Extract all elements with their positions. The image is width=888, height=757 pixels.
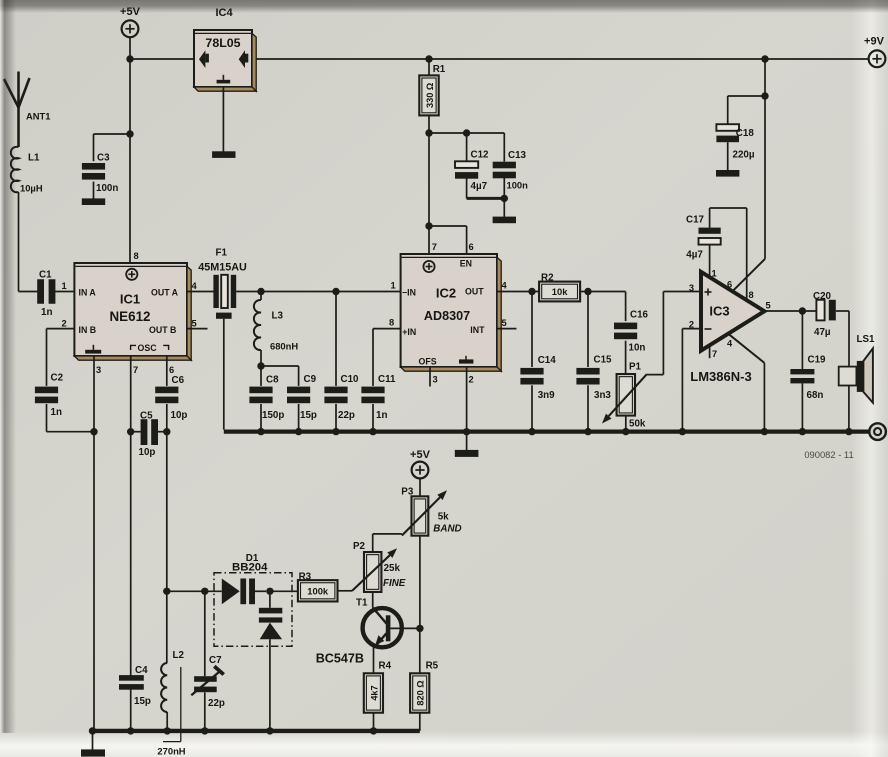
svg-text:BAND: BAND: [433, 524, 461, 535]
label LM386N-3: [690, 369, 751, 384]
wire bottom rail: [90, 729, 420, 733]
svg-text:10n: 10n: [629, 343, 646, 354]
junction row A at C10: [332, 288, 339, 295]
svg-text:3n3: 3n3: [594, 390, 611, 401]
svg-text:4µ7: 4µ7: [686, 250, 703, 261]
svg-text:C7: C7: [209, 655, 222, 666]
svg-text:220µ: 220µ: [733, 150, 755, 161]
svg-text:5: 5: [766, 300, 771, 310]
svg-text:C17: C17: [686, 214, 705, 225]
svg-text:820 Ω: 820 Ω: [416, 680, 426, 705]
wire C3 to ground: [93, 182, 95, 199]
power label +5V osc: [410, 449, 431, 461]
junction varicap common cathode: [266, 588, 273, 595]
IC2 pin 1 label: [391, 281, 396, 291]
svg-text:INT: INT: [470, 325, 485, 335]
wire C7 column: [204, 591, 206, 729]
wire T1 emitter to R4: [373, 647, 375, 674]
svg-text:100n: 100n: [96, 183, 118, 194]
terminal +9V: [869, 50, 886, 67]
wire +5V to P3: [419, 479, 421, 497]
junction varicap row pin6 col: [163, 588, 170, 595]
svg-text:4: 4: [727, 339, 733, 349]
wire C3 to +5V line: [94, 134, 131, 161]
svg-text:EN: EN: [460, 259, 472, 269]
svg-text:+5V: +5V: [120, 6, 141, 18]
svg-text:P3: P3: [401, 487, 414, 498]
svg-text:8: 8: [134, 251, 139, 261]
svg-text:15p: 15p: [300, 410, 317, 421]
junction C5 left: [127, 428, 134, 435]
IC3 pin 4 label: [727, 339, 733, 349]
junction T1 base node: [416, 625, 423, 632]
junction bottom pin3: [89, 727, 96, 734]
capacitor C14: [520, 292, 556, 430]
wire F1 case ground to rail: [223, 319, 225, 430]
svg-text:C5: C5: [140, 410, 153, 421]
svg-text:330 Ω: 330 Ω: [425, 83, 435, 108]
wire base node to R5: [419, 628, 421, 673]
inductor L2: [157, 650, 185, 757]
svg-text:10µH: 10µH: [20, 183, 43, 194]
junction rail C10: [332, 428, 339, 435]
capacitor C1: [37, 270, 55, 319]
IC1 pin 5 stub OUT B: [187, 318, 208, 328]
capacitor C3: [82, 153, 118, 195]
IC1 pin 4 wire to F1: [187, 281, 214, 292]
svg-text:OUT B: OUT B: [149, 325, 176, 335]
junction rail C8: [257, 428, 264, 435]
wire L3 bottom to C8: [260, 350, 262, 386]
wire P2 top link: [373, 534, 402, 552]
wire P3 bottom to base node: [419, 536, 421, 629]
svg-text:C16: C16: [630, 310, 649, 321]
svg-text:3n9: 3n9: [538, 390, 555, 401]
ground below IC2 pin 2: [455, 450, 479, 457]
junction top rail at +5V: [126, 55, 133, 62]
wire C18 link: [728, 96, 765, 124]
svg-text:BB204: BB204: [232, 562, 268, 574]
junction bottom L2: [164, 727, 171, 734]
svg-text:2: 2: [469, 375, 474, 385]
svg-text:4: 4: [192, 281, 198, 291]
svg-text:C20: C20: [813, 291, 832, 302]
inductor L3: [254, 300, 298, 352]
wire pin3 column lower: [93, 432, 95, 750]
capacitor C17 electrolytic: [686, 214, 721, 260]
IC1 pin 6 wire: [167, 356, 174, 386]
capacitor C7 variable: [191, 655, 225, 709]
ground below IC4: [212, 151, 235, 158]
wire +9V drop: [764, 59, 766, 259]
svg-text:68n: 68n: [807, 390, 824, 401]
wire +9V top rail: [252, 58, 869, 60]
capacitor C10: [324, 292, 359, 430]
svg-text:R2: R2: [541, 272, 554, 283]
svg-text:C11: C11: [378, 374, 396, 385]
junction +9V at C18: [761, 92, 768, 99]
op-amp IC3 LM386N-3: [701, 272, 764, 351]
svg-text:7: 7: [712, 349, 717, 359]
junction rail LS1: [845, 428, 852, 435]
IC3 pin 1 label: [712, 269, 717, 279]
svg-text:R4: R4: [379, 660, 392, 671]
svg-text:6: 6: [169, 365, 174, 375]
svg-text:L2: L2: [173, 650, 185, 661]
svg-text:10p: 10p: [139, 447, 156, 458]
svg-text:4k7: 4k7: [369, 685, 379, 700]
IC1 pin 8 label: [134, 251, 139, 261]
junction top rail at +9V drop: [761, 55, 768, 62]
junction C5 right: [163, 428, 170, 435]
wire C20 to LS1: [836, 311, 849, 367]
wire L3 top: [260, 292, 262, 301]
svg-text:OUT: OUT: [465, 287, 484, 297]
svg-text:C18: C18: [736, 128, 755, 139]
svg-text:LM386N-3: LM386N-3: [690, 369, 751, 384]
svg-text:C14: C14: [538, 355, 557, 366]
IC3 pin 7 stub: [710, 345, 718, 359]
power label +9V: [864, 36, 885, 48]
svg-text:22p: 22p: [208, 698, 225, 709]
speaker LS1: [839, 334, 875, 403]
svg-text:IC4: IC4: [215, 7, 233, 19]
svg-text:OUT A: OUT A: [151, 287, 179, 297]
svg-text:AD8307: AD8307: [424, 309, 470, 323]
svg-text:R1: R1: [433, 64, 446, 75]
svg-text:50k: 50k: [629, 419, 646, 430]
resistor R1: [419, 59, 445, 133]
svg-text:1n: 1n: [51, 407, 62, 418]
resistor R2: [539, 272, 580, 301]
svg-text:1n: 1n: [376, 410, 387, 421]
svg-text:3: 3: [96, 365, 101, 375]
svg-text:10k: 10k: [552, 286, 568, 297]
wire L2 to rail: [166, 712, 168, 729]
junction L3/C8/C9 node: [257, 362, 264, 369]
capacitor C6: [155, 375, 187, 432]
junction C12/C13 bottom: [501, 195, 508, 202]
junction rail C19: [799, 428, 806, 435]
junction top rail at R1: [425, 55, 432, 62]
svg-text:ANT1: ANT1: [26, 111, 50, 122]
wire LS1 to rail: [848, 386, 850, 430]
svg-text:5k: 5k: [438, 511, 449, 522]
IC3 pin 3 label: [689, 283, 694, 293]
svg-text:5: 5: [502, 318, 507, 328]
wire varicap row: [167, 590, 222, 592]
IC3 pin 8 label: [749, 290, 754, 300]
svg-text:1n: 1n: [41, 307, 52, 318]
IC2 pin 3 stub OFS: [430, 367, 438, 387]
capacitor C15: [576, 292, 612, 430]
junction rail IC2 pin2: [463, 428, 470, 435]
svg-text:1: 1: [712, 269, 717, 279]
svg-text:5: 5: [192, 318, 197, 328]
svg-text:L3: L3: [272, 311, 284, 322]
wire L3 node to IC2 -IN: [261, 291, 400, 293]
junction R1 bottom: [425, 129, 432, 136]
wire R1 node: [429, 133, 504, 226]
svg-text:C3: C3: [97, 153, 110, 164]
junction rail C9: [295, 428, 302, 435]
junction row A at L3: [257, 288, 264, 295]
junction varicap row C7 col: [201, 588, 208, 595]
junction C14 top: [528, 288, 535, 295]
terminal +5V osc: [412, 462, 429, 479]
svg-text:LS1: LS1: [857, 334, 876, 345]
svg-text:4: 4: [502, 281, 508, 291]
capacitor C12 electrolytic: [455, 133, 504, 198]
ground below C13: [493, 217, 516, 224]
junction rail C11: [369, 428, 376, 435]
svg-text:+5V: +5V: [410, 449, 431, 461]
label circuit number: [804, 449, 853, 460]
junction bottom C4: [127, 727, 134, 734]
wire +5V vertical to IC1 pin 8: [129, 38, 131, 263]
wire R5 to rail: [419, 713, 421, 731]
wire varicap to R3: [270, 590, 298, 592]
potentiometer P3 5k: [401, 487, 461, 536]
potentiometer P1 50k: [602, 362, 647, 430]
svg-text:F1: F1: [216, 248, 228, 259]
junction rail P1: [622, 428, 629, 435]
svg-text:C15: C15: [594, 355, 613, 366]
svg-text:100n: 100n: [507, 180, 529, 191]
power label +5V: [120, 6, 141, 18]
svg-text:+9V: +9V: [864, 36, 885, 48]
svg-text:8: 8: [389, 317, 394, 327]
capacitor C11: [361, 329, 400, 430]
svg-text:IC1: IC1: [120, 292, 140, 307]
svg-text:6: 6: [469, 242, 474, 252]
wire main ground rail: [224, 430, 869, 434]
IC4 78L05 regulator: [194, 7, 256, 91]
antenna ANT1: [4, 72, 50, 148]
svg-text:78L05: 78L05: [205, 36, 240, 50]
svg-text:IN A: IN A: [79, 287, 97, 297]
svg-text:L1: L1: [28, 153, 40, 164]
svg-text:+IN: +IN: [402, 327, 416, 337]
svg-text:6: 6: [727, 280, 732, 290]
svg-text:C13: C13: [508, 150, 527, 161]
wire R3 to P2 wiper: [338, 590, 353, 592]
wire IC3 pin6 diagonal: [732, 259, 765, 292]
svg-text:150p: 150p: [262, 410, 284, 421]
capacitor C4: [119, 432, 151, 729]
svg-text:4µ7: 4µ7: [471, 181, 488, 192]
wire F1 to L3 node: [236, 291, 261, 293]
svg-text:22p: 22p: [338, 410, 355, 421]
log amp IC2 AD8307: [401, 254, 502, 371]
svg-text:2: 2: [689, 320, 694, 330]
inductor L1: [11, 147, 43, 194]
svg-text:NE612: NE612: [110, 309, 151, 324]
junction rail IC3 pin2: [679, 428, 686, 435]
wire IC3 pin2: [682, 329, 701, 430]
IC1 pin 2 wire: [47, 319, 75, 329]
wire R4 to rail: [373, 713, 375, 729]
ground below C3: [82, 198, 105, 205]
capacitor C16: [614, 292, 649, 375]
svg-text:IC3: IC3: [709, 304, 729, 319]
wire R2 to C16: [580, 291, 625, 293]
IC2 pin 4 wire: [497, 281, 539, 292]
resistor R4: [364, 660, 392, 712]
svg-text:C4: C4: [135, 665, 148, 676]
wire IC4 ground pin: [222, 87, 224, 152]
junction C15 top: [584, 288, 591, 295]
junction pin7/pin6 node: [425, 222, 432, 229]
resistor R5: [410, 660, 439, 712]
svg-text:OSC: OSC: [138, 343, 158, 353]
transistor T1 BC547B: [316, 597, 420, 665]
junction bottom R4: [370, 727, 377, 734]
terminal +5V: [122, 20, 139, 37]
capacitor C13: [493, 133, 528, 217]
IC2 pin 5 stub INT: [497, 318, 517, 329]
svg-text:IN B: IN B: [79, 325, 97, 335]
resistor R3: [298, 572, 338, 602]
op-amp/mixer IC1 NE612: [74, 263, 191, 360]
capacitor C18 electrolytic: [716, 124, 754, 161]
svg-text:R5: R5: [426, 660, 439, 671]
svg-text:P1: P1: [629, 362, 642, 373]
wire IC3 pin4 diagonal: [728, 334, 764, 430]
wire +5V top rail: [130, 58, 194, 60]
diode D1 BB204 dual varicap: [214, 553, 292, 646]
junction rail C14: [528, 428, 535, 435]
svg-text:C9: C9: [304, 374, 317, 385]
svg-text:1: 1: [391, 281, 396, 291]
wire IC3 output: [764, 300, 816, 311]
svg-text:100k: 100k: [307, 585, 329, 596]
wire antenna to C1: [19, 192, 38, 292]
wire IC2 pin7: [429, 226, 437, 254]
wire C17 bottom to IC3 pin1: [709, 245, 711, 278]
svg-text:270nH: 270nH: [157, 746, 185, 757]
IC2 pin 8 label: [389, 317, 394, 327]
junction bottom C7: [201, 727, 208, 734]
svg-text:C2: C2: [51, 372, 64, 383]
svg-text:7: 7: [432, 242, 437, 252]
wire C17 top to IC3 pin8: [710, 208, 747, 300]
svg-text:3: 3: [433, 375, 438, 385]
svg-text:C10: C10: [341, 374, 360, 385]
svg-text:47µ: 47µ: [814, 327, 831, 338]
capacitor C2: [35, 329, 94, 432]
svg-text:BC547B: BC547B: [316, 651, 364, 665]
crystal filter F1 45M15AU: [198, 248, 247, 319]
svg-text:45M15AU: 45M15AU: [198, 261, 247, 273]
svg-text:10p: 10p: [171, 410, 188, 421]
ground below C18: [716, 170, 739, 177]
svg-text:680nH: 680nH: [270, 341, 298, 352]
wire pin6 column down: [166, 432, 168, 663]
svg-text:IC2: IC2: [436, 285, 456, 300]
svg-text:25k: 25k: [384, 563, 401, 574]
svg-text:T1: T1: [356, 597, 368, 608]
ground bottom left: [81, 749, 105, 756]
wire varicap anode down: [269, 639, 271, 729]
capacitor C19: [790, 311, 826, 430]
IC1 pin 7 wire: [131, 356, 138, 420]
svg-text:FINE: FINE: [383, 578, 406, 589]
junction output at C19: [799, 307, 806, 314]
svg-text:C1: C1: [39, 270, 52, 281]
IC2 pin 2 wire: [467, 367, 474, 450]
junction +5V at C3: [126, 130, 133, 137]
svg-text:OFS: OFS: [419, 357, 437, 367]
wire P1 wiper to IC3 pin3: [647, 292, 701, 375]
terminal 0 output: [869, 423, 886, 440]
IC3 pin 2 label: [689, 320, 694, 330]
wire C9 top link: [261, 366, 299, 386]
svg-text:15p: 15p: [134, 696, 151, 707]
svg-text:8: 8: [749, 290, 754, 300]
svg-text:090082 - 11: 090082 - 11: [804, 449, 853, 460]
svg-text:C6: C6: [172, 375, 185, 386]
junction C2/pin3 node: [90, 428, 97, 435]
junction C12 top: [463, 129, 470, 136]
potentiometer P2 25k: [352, 541, 406, 592]
capacitor C9: [287, 374, 317, 430]
wire C1 to IC1 pin 1: [55, 281, 74, 292]
svg-text:7: 7: [133, 365, 138, 375]
wire C18 to ground: [727, 142, 729, 170]
capacitor C8: [249, 374, 284, 429]
svg-text:1: 1: [62, 281, 67, 291]
svg-text:−IN: −IN: [402, 288, 416, 298]
svg-text:C12: C12: [471, 150, 490, 161]
capacitor C5: [131, 410, 167, 458]
svg-text:2: 2: [62, 319, 67, 329]
svg-text:C8: C8: [266, 374, 279, 385]
svg-text:R3: R3: [299, 572, 312, 583]
junction rail IC3 pin4: [761, 428, 768, 435]
junction rail C15: [584, 428, 591, 435]
svg-text:P2: P2: [353, 541, 366, 552]
junction bottom D1: [266, 727, 273, 734]
IC1 pin 3 wire: [94, 356, 101, 430]
svg-text:3: 3: [689, 283, 694, 293]
wire IC2 pin6 link: [429, 226, 474, 254]
wire P2 bottom to T1 collector: [372, 592, 374, 608]
capacitor C20 electrolytic: [813, 291, 836, 338]
svg-text:C19: C19: [808, 355, 827, 366]
IC3 pin 6 label: [727, 280, 732, 290]
